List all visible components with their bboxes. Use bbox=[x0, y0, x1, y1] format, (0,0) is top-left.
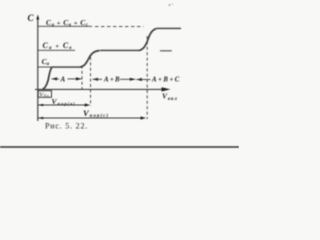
dashed vertical 3 bbox=[146, 36, 148, 119]
svg-text:А + В + С: А + В + С bbox=[151, 77, 180, 84]
curve plateau 3 bbox=[156, 27, 181, 29]
mid level line bbox=[38, 49, 75, 51]
dim A+B+C left arrow bbox=[136, 78, 142, 81]
dim A right arrow bbox=[68, 78, 82, 80]
curve plateau 1 bbox=[52, 66, 81, 68]
x-axis arrowhead bbox=[162, 87, 171, 91]
svg-text:А + В: А + В bbox=[103, 77, 120, 84]
top level line solid part bbox=[38, 25, 92, 27]
page rule bbox=[0, 146, 239, 148]
dim A+B right arrow bbox=[120, 78, 135, 80]
svg-text:C: C bbox=[28, 13, 35, 23]
dim Vpor(c) left arrowhead bbox=[38, 117, 43, 119]
mid level dash right of rise 3 bbox=[160, 50, 172, 52]
svg-text:А: А bbox=[60, 76, 66, 84]
box Vbe bbox=[38, 91, 51, 98]
y-axis bbox=[37, 17, 39, 122]
curve rise 1 bbox=[43, 67, 52, 89]
low level line bbox=[38, 66, 80, 68]
dim A left arrow bbox=[52, 77, 58, 80]
y-axis arrowhead bbox=[36, 15, 39, 20]
dim A+B left arrow bbox=[93, 78, 99, 81]
dim Vpor(b) left arrowhead bbox=[38, 104, 43, 106]
top level line dashed part bbox=[95, 26, 144, 28]
dashed vertical 1 bbox=[81, 66, 83, 90]
speck bbox=[169, 4, 171, 6]
dim Vpor(c) right arrowhead bbox=[141, 116, 147, 119]
dim Vpor(b) right arrowhead bbox=[85, 103, 91, 106]
svg-text:Са + Св: Са + Св bbox=[43, 41, 73, 51]
curve rise 2 bbox=[80, 51, 100, 68]
svg-text:Vбэ: Vбэ bbox=[39, 91, 49, 98]
curve rise 3 bbox=[139, 29, 156, 51]
svg-text:Рис. 5. 22.: Рис. 5. 22. bbox=[45, 122, 88, 131]
curve plateau 2 bbox=[100, 49, 139, 51]
dim Vpor(c) line bbox=[38, 117, 144, 119]
x-axis bbox=[35, 88, 163, 90]
dim Vpor(b) line bbox=[38, 104, 88, 106]
dashed vertical 2 bbox=[90, 57, 92, 106]
